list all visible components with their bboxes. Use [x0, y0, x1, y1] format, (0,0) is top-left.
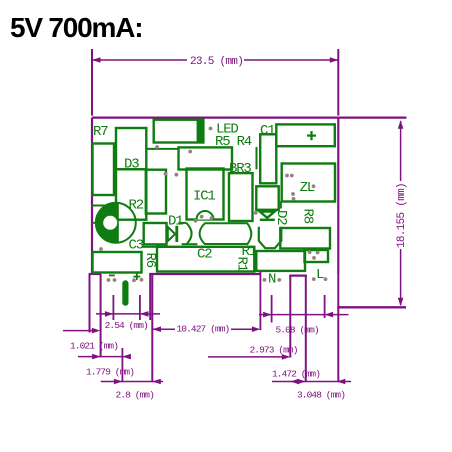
svg-text:D3: D3	[124, 157, 139, 173]
svg-text:R1: R1	[234, 257, 250, 272]
svg-text:IC1: IC1	[193, 189, 215, 205]
svg-text:23.5 (mm): 23.5 (mm)	[190, 56, 243, 68]
svg-text:ZL: ZL	[300, 180, 315, 196]
svg-text:N: N	[268, 272, 276, 288]
svg-text:2.973 (mm): 2.973 (mm)	[250, 345, 298, 356]
svg-text:2.54 (mm): 2.54 (mm)	[105, 320, 148, 331]
svg-text:10.427 (mm): 10.427 (mm)	[177, 324, 230, 335]
svg-text:D1: D1	[168, 213, 183, 229]
svg-text:R5 R4: R5 R4	[215, 134, 252, 150]
svg-text:BR3: BR3	[229, 161, 251, 177]
svg-text:3.048 (mm): 3.048 (mm)	[297, 390, 345, 401]
svg-text:2.8 (mm): 2.8 (mm)	[116, 390, 155, 401]
svg-text:R8: R8	[299, 209, 315, 224]
svg-text:5.08 (mm): 5.08 (mm)	[276, 325, 319, 336]
svg-text:C2: C2	[197, 247, 212, 263]
svg-text:1.779 (mm): 1.779 (mm)	[86, 366, 134, 377]
svg-text:1.472 (mm): 1.472 (mm)	[272, 369, 320, 380]
svg-text:C1: C1	[260, 123, 275, 139]
svg-text:18.155 (mm): 18.155 (mm)	[396, 183, 408, 248]
svg-text:D2: D2	[273, 210, 289, 225]
svg-text:C3: C3	[129, 238, 144, 254]
svg-text:L: L	[316, 267, 324, 283]
svg-text:R2: R2	[129, 198, 144, 214]
svg-text:R7: R7	[93, 124, 108, 140]
svg-text:1.021 (mm): 1.021 (mm)	[70, 341, 118, 352]
svg-text:R6: R6	[142, 253, 158, 268]
